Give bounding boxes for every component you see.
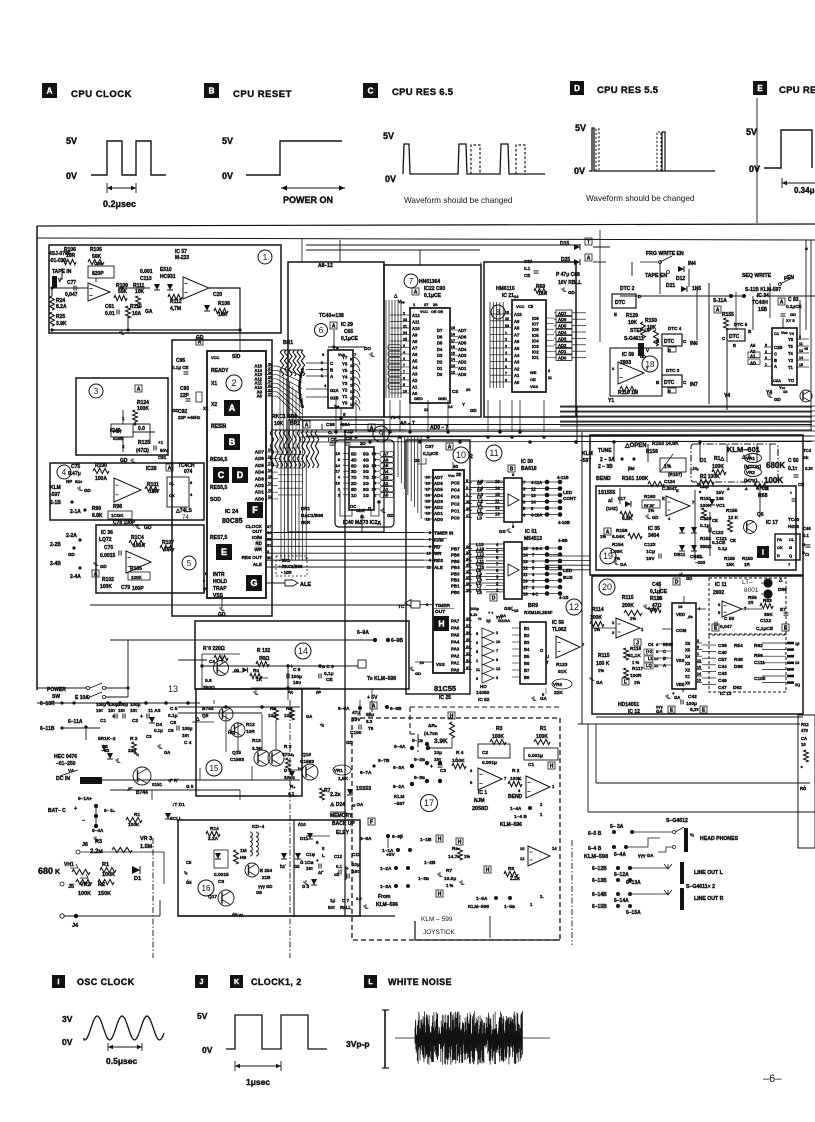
svg-text:IC 51: IC 51	[525, 529, 537, 535]
svg-text:22: 22	[424, 407, 429, 412]
svg-text:16V RBLL: 16V RBLL	[558, 280, 582, 286]
block16 transistor E254	[245, 863, 259, 877]
svg-text:KLM: KLM	[50, 485, 61, 491]
svg-text:0V: 0V	[574, 166, 585, 176]
svg-text:SID: SID	[232, 354, 241, 360]
svg-text:1–1B: 1–1B	[420, 837, 432, 843]
svg-text:SOD: SOD	[210, 497, 221, 503]
svg-text:6–6B: 6–6B	[390, 706, 402, 712]
svg-text:VH1: VH1	[64, 862, 74, 868]
svg-text:S–G4612: S–G4612	[666, 818, 688, 824]
block 4 enclosure	[50, 463, 204, 520]
svg-text:6.3τ: 6.3τ	[470, 612, 478, 617]
svg-text:0,1μCE: 0,1μCE	[341, 336, 359, 342]
svg-text:Y4: Y4	[766, 390, 772, 396]
svg-text:22P: 22P	[180, 393, 190, 399]
svg-text:(M7K): (M7K)	[744, 478, 758, 484]
svg-text:A10: A10	[514, 312, 522, 317]
svg-text:A1: A1	[750, 354, 756, 359]
svg-text:31: 31	[267, 544, 271, 548]
RAM IC21 HM6116 body	[512, 300, 546, 392]
svg-text:36: 36	[466, 544, 471, 549]
svg-text:+: +	[140, 714, 143, 720]
svg-text:DTC: DTC	[615, 300, 626, 306]
svg-text:τ: τ	[790, 490, 792, 495]
svg-text:T4: T4	[788, 351, 794, 356]
dashed box IC11 2902	[709, 578, 786, 635]
svg-text:C43: C43	[718, 671, 727, 677]
svg-text:VSS: VSS	[530, 384, 538, 389]
svg-text:0.1μ: 0.1μ	[718, 546, 727, 551]
svg-text:15: 15	[372, 463, 377, 468]
svg-text:VR1: VR1	[746, 456, 755, 461]
svg-text:12: 12	[496, 667, 500, 671]
svg-text:CK: CK	[169, 493, 175, 498]
svg-text:HO: HO	[480, 684, 487, 689]
svg-text:RD: RD	[434, 544, 440, 549]
svg-text:R12: R12	[801, 722, 809, 727]
svg-text:A0: A0	[383, 493, 389, 498]
svg-text:AD6: AD6	[255, 456, 265, 461]
address bus vertical lines CPU to decoders	[279, 370, 281, 455]
svg-text:12: 12	[495, 505, 500, 510]
block 7 number and label	[404, 274, 418, 288]
svg-text:10A: 10A	[132, 311, 142, 317]
svg-text:7: 7	[744, 606, 747, 611]
svg-text:15: 15	[697, 665, 701, 669]
svg-text:3: 3	[532, 579, 535, 584]
svg-text:14: 14	[523, 553, 528, 558]
tape jack symbol	[52, 276, 57, 288]
svg-text:IC 56: IC 56	[552, 620, 564, 626]
svg-text:0.34μ: 0.34μ	[794, 186, 815, 195]
svg-text:X4: X4	[685, 654, 691, 659]
svg-text:0.1μCE: 0.1μCE	[786, 304, 802, 309]
block 16 number	[198, 880, 214, 896]
svg-text:Y4: Y4	[789, 331, 795, 336]
misc long vertical wires	[301, 238, 303, 262]
svg-text:C: C	[683, 339, 687, 344]
svg-text:C 5: C 5	[170, 706, 178, 712]
svg-text:20: 20	[466, 387, 471, 392]
svg-text:OE OE: OE OE	[431, 310, 443, 314]
svg-text:16τ: 16τ	[352, 869, 359, 874]
svg-text:GD: GD	[84, 488, 92, 493]
svg-text:KLM–596: KLM–596	[500, 822, 522, 828]
svg-text:KLM–601: KLM–601	[727, 445, 760, 454]
svg-text:16τ: 16τ	[118, 708, 125, 713]
IC13 left pin wires	[702, 644, 716, 646]
svg-text:15: 15	[799, 363, 803, 367]
svg-text:4-11B: 4-11B	[557, 475, 569, 480]
svg-text:8: 8	[403, 376, 405, 380]
svg-text:F: F	[370, 820, 373, 826]
svg-text:2: 2	[403, 357, 405, 361]
svg-text:6: 6	[612, 366, 615, 371]
svg-text:▸: ▸	[800, 764, 804, 769]
svg-text:H: H	[458, 840, 462, 846]
wires inside block 19	[694, 490, 696, 560]
svg-text:R107: R107	[162, 540, 174, 546]
svg-text:C1: C1	[774, 331, 780, 336]
svg-text:L5: L5	[478, 479, 484, 484]
svg-text:KL: KL	[697, 554, 703, 559]
svg-text:27: 27	[466, 623, 471, 628]
svg-text:2-1A: 2-1A	[70, 509, 81, 515]
svg-text:R160: R160	[644, 494, 656, 500]
svg-text:CONT: CONT	[563, 496, 576, 501]
svg-text:VCC: VCC	[420, 310, 428, 314]
svg-text:C20: C20	[213, 292, 222, 298]
svg-text:R115: R115	[622, 595, 634, 601]
BR9 top cap labels	[490, 594, 497, 602]
svg-text:H: H	[438, 837, 442, 843]
svg-text:4: 4	[62, 468, 67, 477]
svg-text:A2: A2	[514, 366, 520, 371]
svg-text:A: A	[716, 308, 720, 314]
svg-text:X1: X1	[211, 381, 217, 387]
svg-text:5: 5	[496, 549, 499, 554]
svg-text:12: 12	[523, 566, 528, 571]
svg-text:D25: D25	[561, 257, 570, 263]
svg-text:12: 12	[569, 602, 579, 612]
svg-text:J5: J5	[68, 884, 74, 890]
svg-text:D62: D62	[733, 685, 742, 691]
svg-text:8: 8	[338, 457, 341, 462]
svg-text:IC 21: IC 21	[502, 293, 514, 299]
svg-text:2-1B: 2-1B	[50, 500, 61, 506]
small marker A above CPU	[196, 338, 203, 346]
svg-text:Ǵ 1Cᴍ: Ǵ 1Cᴍ	[300, 860, 314, 865]
svg-text:ħ2΄: ħ2΄	[280, 864, 287, 869]
svg-text:A6: A6	[412, 352, 418, 357]
svg-text:9: 9	[656, 649, 659, 654]
svg-text:6βμ: 6βμ	[366, 712, 374, 717]
svg-text:XY 5: XY 5	[786, 318, 795, 323]
svg-text:T5: T5	[788, 344, 794, 349]
svg-text:0.1μ: 0.1μ	[154, 728, 163, 733]
joystick title corner solid	[415, 921, 560, 940]
svg-text:CPU RESET: CPU RESET	[233, 89, 292, 100]
svg-text:12: 12	[451, 370, 455, 374]
svg-text:̧4в: ̧4в	[687, 614, 693, 619]
block 17 number	[421, 795, 438, 812]
svg-text:AD4: AD4	[558, 330, 567, 335]
svg-text:15V: 15V	[716, 490, 725, 495]
svg-text:A: A	[606, 530, 610, 536]
svg-text:C3: C3	[440, 768, 446, 773]
svg-text:J4ₓ: J4ₓ	[692, 466, 699, 471]
svg-text:074: 074	[184, 469, 193, 475]
horizontal stubs IC21 left pins	[490, 313, 504, 315]
svg-text:O.: O.	[328, 430, 333, 435]
svg-text:6: 6	[523, 500, 526, 505]
svg-text:Y1: Y1	[342, 394, 348, 399]
vertical bus bundle left of IC22	[385, 300, 387, 398]
svg-text:9.8: 9.8	[205, 678, 212, 684]
svg-text:C,1μCE: C,1μCE	[756, 626, 774, 632]
svg-text:R8: R8	[508, 866, 514, 872]
svg-text:COM: COM	[676, 628, 687, 633]
svg-text:1: 1	[697, 652, 699, 656]
transistor 2SB744 regulator	[133, 767, 151, 785]
svg-text:ʏₛₛ: ʏₛₛ	[334, 403, 340, 408]
svg-text:16: 16	[523, 579, 528, 584]
svg-text:ΔR₅: ΔR₅	[428, 723, 437, 729]
svg-text:H014: H014	[788, 524, 799, 529]
svg-text:–: –	[82, 818, 85, 824]
svg-text:37: 37	[267, 525, 271, 529]
svg-text:AD2: AD2	[255, 483, 265, 488]
svg-text:GS: GS	[499, 529, 506, 534]
svg-text:IC 29: IC 29	[341, 322, 353, 328]
VR4 22K trimmer	[552, 679, 572, 689]
svg-text:26: 26	[466, 630, 471, 635]
marker small A and R158	[604, 528, 611, 536]
svg-text:+: +	[430, 764, 433, 770]
svg-text:15: 15	[210, 764, 219, 773]
waveform label K (CLOCK1, 2)	[230, 975, 243, 988]
long address bus lines to right side	[266, 532, 424, 534]
VR1 1.5K trimmer	[333, 765, 351, 775]
resistor R116 51.1K	[634, 639, 641, 647]
svg-text:1.5M: 1.5M	[140, 844, 153, 850]
svg-text:1μ: 1μ	[330, 898, 335, 903]
svg-text:D3: D3	[437, 353, 443, 358]
81C55 IC25 body	[433, 470, 464, 673]
svg-text:PA4: PA4	[451, 640, 460, 645]
svg-text:C46: C46	[803, 526, 811, 531]
svg-text:16υ: 16υ	[293, 680, 301, 686]
svg-text:RʙLL: RʙLL	[340, 905, 352, 910]
svg-text:T: T	[587, 240, 590, 246]
svg-text:6–11A: 6–11A	[68, 719, 83, 725]
svg-text:AD0: AD0	[434, 517, 443, 522]
svg-text:C3: C3	[146, 734, 152, 739]
svg-text:V: V	[646, 348, 649, 353]
op amp IC35 3404 no1	[666, 496, 690, 516]
block 3 enclosure	[76, 378, 168, 455]
svg-text:A: A	[372, 704, 376, 710]
svg-text:15B: 15B	[758, 307, 768, 313]
svg-text:6: 6	[496, 658, 498, 662]
svg-text:A7: A7	[514, 332, 520, 337]
svg-text:12: 12	[426, 517, 431, 522]
svg-text:R101: R101	[147, 482, 159, 488]
svg-text:D: D	[777, 553, 780, 558]
svg-text:6: 6	[190, 480, 193, 485]
waveform L noise band	[415, 1011, 522, 1065]
svg-text:T: T	[546, 660, 549, 665]
svg-text:• RKC1/B98: • RKC1/B98	[279, 564, 303, 569]
svg-text:200K: 200K	[622, 603, 634, 609]
svg-text:↓Τ D1: ↓Τ D1	[172, 802, 185, 808]
svg-text:PC0: PC0	[451, 515, 460, 520]
svg-text:50τ: 50τ	[328, 905, 335, 910]
svg-text:E: E	[614, 312, 617, 317]
svg-text:100μ: 100μ	[291, 674, 302, 680]
svg-text:E7: E7	[780, 607, 786, 613]
svg-text:R99: R99	[92, 506, 101, 512]
svg-text:CE: CE	[524, 273, 530, 278]
block 3 number	[89, 384, 103, 398]
svg-text:H: H	[438, 619, 444, 629]
crystal X1 1MHz	[196, 392, 202, 402]
svg-text:D89: D89	[778, 587, 787, 593]
block 2 number	[226, 375, 242, 391]
svg-text:L: L	[322, 853, 325, 858]
svg-text:GD: GD	[774, 397, 782, 402]
svg-text:WR: WR	[434, 551, 442, 556]
svg-text:DTC 2: DTC 2	[620, 286, 635, 292]
svg-text:100K: 100K	[131, 575, 143, 580]
svg-text:SEQ WRITE: SEQ WRITE	[742, 273, 772, 279]
svg-text:A3: A3	[383, 475, 389, 480]
svg-text:100K: 100K	[536, 734, 548, 740]
svg-text:R129: R129	[626, 313, 638, 319]
svg-text:ᴠₐ: ᴠₐ	[690, 832, 694, 837]
svg-text:6–9B: 6–9B	[391, 638, 403, 644]
svg-text:2.2ᴋ: 2.2ᴋ	[330, 792, 342, 798]
svg-text:+ 5V: + 5V	[367, 695, 378, 701]
svg-text:0,047: 0,047	[720, 624, 732, 630]
svg-text:16: 16	[426, 493, 431, 498]
svg-text:IC 59: IC 59	[622, 352, 634, 358]
svg-text:AD5: AD5	[434, 487, 443, 492]
svg-text:35: 35	[466, 550, 471, 555]
svg-text:IC 11: IC 11	[715, 582, 727, 588]
svg-text:7: 7	[403, 363, 405, 367]
svg-text:M54513: M54513	[524, 536, 542, 542]
svg-text:E: E	[221, 547, 227, 557]
svg-text:B1: B1	[524, 626, 530, 631]
block 10-11 numbers	[453, 447, 469, 463]
svg-text:20: 20	[602, 582, 612, 592]
svg-text:13: 13	[795, 661, 799, 665]
svg-text:4D: 4D	[351, 457, 357, 462]
svg-text:BAT– C: BAT– C	[48, 808, 66, 814]
svg-text:12: 12	[531, 487, 536, 492]
svg-text:C1ѱ: C1ѱ	[306, 852, 316, 857]
svg-text:C95: C95	[176, 358, 185, 364]
svg-text:13: 13	[523, 559, 528, 564]
svg-text:K: K	[234, 979, 239, 986]
svg-text:0.1: 0.1	[336, 864, 343, 869]
svg-text:5Ωτ: 5Ωτ	[75, 479, 82, 484]
svg-text:19: 19	[451, 326, 455, 330]
svg-text:J6: J6	[82, 842, 88, 848]
svg-text:820P: 820P	[92, 271, 104, 277]
svg-text:X1: X1	[685, 674, 691, 679]
svg-text:+: +	[316, 858, 319, 863]
svg-text:C87: C87	[524, 259, 533, 264]
svg-text:To KLM–598: To KLM–598	[367, 676, 396, 682]
svg-text:INTR: INTR	[213, 572, 225, 578]
svg-text:32: 32	[466, 569, 471, 574]
svg-text:9–4A: 9–4A	[92, 828, 104, 834]
svg-text:C2: C2	[482, 750, 488, 756]
svg-text:11: 11	[523, 572, 528, 577]
svg-text:ΔĪ: ΔĪ	[608, 497, 613, 503]
waveform E trace	[764, 130, 812, 168]
svg-text:10K: 10K	[628, 320, 638, 326]
svg-text:AD2: AD2	[458, 360, 467, 365]
svg-text:A5: A5	[514, 346, 520, 351]
svg-text:GD: GD	[640, 354, 646, 359]
svg-text:H9: H9	[240, 855, 246, 861]
transistor Q2	[231, 723, 245, 737]
CPU ground GD	[221, 598, 223, 606]
svg-text:13: 13	[531, 493, 536, 498]
svg-text:PB1: PB1	[451, 584, 460, 589]
svg-text:13: 13	[168, 684, 178, 694]
svg-text:5: 5	[765, 343, 767, 347]
svg-text:15: 15	[520, 846, 525, 851]
svg-text:27: 27	[424, 302, 429, 307]
transistor DTC5	[714, 306, 721, 314]
svg-text:0.0: 0.0	[138, 426, 145, 432]
op-amp block4	[114, 478, 141, 502]
svg-text:PB0: PB0	[451, 590, 460, 595]
svg-text:GA: GA	[674, 695, 680, 700]
svg-text:L2: L2	[478, 498, 484, 503]
svg-text:D: D	[574, 84, 580, 93]
svg-text:HEC 0476: HEC 0476	[54, 754, 77, 760]
svg-text:C121: C121	[716, 536, 727, 541]
svg-text:R62: R62	[754, 643, 763, 649]
block1 wires	[62, 287, 88, 289]
svg-text:0.001μ: 0.001μ	[528, 753, 543, 759]
svg-text:C46: C46	[718, 678, 727, 684]
svg-text:1%: 1%	[630, 616, 636, 621]
svg-text:23: 23	[403, 318, 407, 322]
svg-text:G5: G5	[256, 890, 263, 895]
svg-text:C40: C40	[718, 650, 727, 656]
EL KEY cluster divider	[293, 820, 295, 917]
marker A black square on CPU	[224, 400, 240, 416]
svg-text:6–5 B: 6–5 B	[588, 831, 602, 837]
svg-text:GD: GD	[686, 576, 692, 581]
svg-text:TIMER: TIMER	[435, 603, 450, 609]
svg-text:6–14A: 6–14A	[614, 898, 629, 904]
svg-text:CL: CL	[789, 537, 795, 542]
svg-text:βM: βM	[628, 466, 635, 471]
svg-text:20: 20	[420, 660, 425, 665]
svg-text:TL062: TL062	[552, 627, 567, 633]
svg-text:10: 10	[801, 742, 806, 747]
svg-text:AD0: AD0	[255, 496, 265, 501]
svg-text:4: 4	[190, 492, 193, 497]
svg-text:5D: 5D	[351, 452, 357, 457]
svg-text:PC3: PC3	[451, 494, 460, 499]
81C55 left vertical bus bundle	[397, 436, 399, 477]
svg-text:A4: A4	[412, 365, 418, 370]
svg-text:AD1: AD1	[558, 349, 567, 354]
svg-text:1–4 B: 1–4 B	[514, 814, 527, 820]
svg-text:14: 14	[552, 846, 557, 851]
vertical bus CPU AD down corridor	[280, 455, 282, 560]
svg-text:100 K: 100 K	[596, 661, 610, 667]
horizontal stubs IC22 left pins	[390, 314, 402, 316]
svg-text:GD: GD	[218, 612, 226, 618]
svg-text:GD: GD	[470, 408, 478, 413]
svg-text:–597: –597	[394, 801, 405, 807]
svg-text:HC931: HC931	[160, 274, 176, 280]
svg-text:8: 8	[496, 568, 499, 573]
block 19 enclosure	[596, 486, 796, 570]
svg-text:1S1555: 1S1555	[598, 490, 615, 496]
svg-text:C112: C112	[760, 618, 772, 624]
